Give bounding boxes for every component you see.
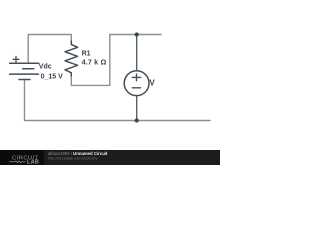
battery plus sign	[13, 57, 19, 63]
svg-text:http://circuitlab.com/c63rzmy: http://circuitlab.com/c63rzmy	[48, 155, 97, 160]
wire bottom net from battery negative to right stub	[25, 81, 211, 121]
wire V source bottom lead	[136, 96, 138, 121]
svg-text:0_15 V: 0_15 V	[41, 73, 64, 80]
voltage source minus sign	[132, 87, 140, 89]
node junction dot bottom net	[135, 118, 139, 122]
watermark logo box	[0, 150, 44, 165]
wire V source top lead	[136, 35, 138, 71]
svg-text:V: V	[149, 79, 155, 88]
wire battery positive terminal up and right to resistor top	[28, 35, 71, 64]
wire resistor bottom right then up to top net right piece	[71, 35, 161, 86]
watermark bar	[0, 150, 220, 165]
voltage source V1 circle	[124, 71, 149, 96]
voltage source plus sign	[132, 74, 141, 81]
battery Vdc plates	[10, 63, 39, 79]
resistor R1 zigzag	[65, 41, 78, 76]
svg-text:R1: R1	[82, 51, 91, 58]
svg-text:LAB: LAB	[27, 160, 39, 165]
CircuitLab logo resistor glyph and LAB	[9, 161, 26, 163]
svg-text:4.7 k Ω: 4.7 k Ω	[82, 58, 107, 67]
svg-text:Vdc: Vdc	[39, 64, 52, 71]
node junction dot top net	[135, 32, 139, 36]
